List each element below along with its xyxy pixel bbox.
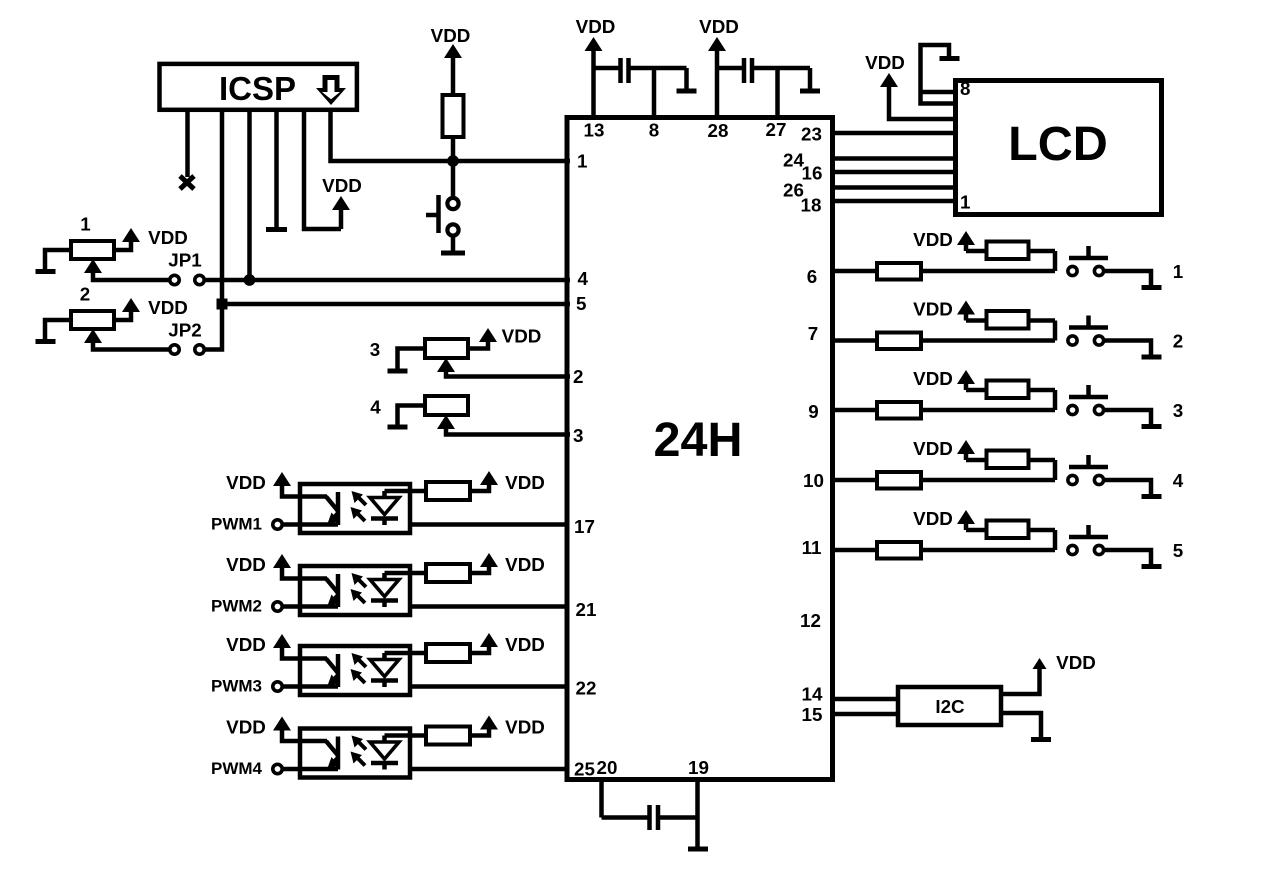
svg-text:VDD: VDD (502, 326, 542, 347)
svg-text:2: 2 (80, 284, 90, 305)
ICSP pin wire 6 / wire to MCU pin 1 (331, 110, 571, 161)
capacitor C3 (pins 20/19) (599, 779, 604, 818)
svg-text:22: 22 (576, 678, 597, 699)
svg-text:VDD: VDD (1056, 652, 1096, 673)
wire MCU pin 14 to I2C (833, 697, 898, 702)
ground (RV2) (36, 339, 56, 344)
svg-text:9: 9 (808, 401, 818, 422)
optocoupler U5 (PWM4, MCU pin 25) (226, 716, 568, 778)
switch row 5 (MCU pin 11) (832, 508, 1162, 567)
ground (RV3) (388, 369, 408, 374)
svg-text:PWM4: PWM4 (211, 759, 263, 778)
svg-text:3: 3 (1173, 400, 1183, 421)
svg-text:4: 4 (578, 268, 589, 289)
svg-text:I2C: I2C (935, 696, 965, 717)
optocoupler U3 (PWM2, MCU pin 21) (226, 553, 568, 615)
svg-text:16: 16 (802, 163, 823, 184)
svg-text:5: 5 (576, 293, 586, 314)
switch row 3 (MCU pin 9) (832, 368, 1162, 427)
wire MCU pin 18 to LCD (833, 199, 955, 204)
VDD arrow (RV2) (122, 298, 140, 312)
wire MCU pin 26 to LCD (833, 185, 955, 190)
ground (RV1) (36, 269, 56, 274)
VDD arrow (RV3) (479, 328, 497, 342)
svg-text:8: 8 (649, 120, 659, 141)
svg-text:11: 11 (802, 537, 822, 558)
resistor R1 (MCLR pull-up) (443, 95, 464, 137)
ground (RV4) (388, 425, 408, 430)
wire pin 19 to ground (695, 779, 700, 847)
ground (I2C) (1031, 737, 1051, 742)
VDD arrow (RV1) (122, 228, 140, 242)
svg-text:21: 21 (576, 599, 597, 620)
svg-text:25: 25 (574, 759, 595, 780)
svg-text:ICSP: ICSP (219, 70, 296, 107)
ground (LCD) (940, 56, 960, 61)
no-connect X (180, 176, 194, 189)
svg-text:1: 1 (960, 192, 970, 213)
wire I2C to VDD (1001, 669, 1040, 694)
wire LCD second stub (921, 90, 956, 95)
svg-text:24H: 24H (654, 413, 743, 467)
RV2 wiper arrow (84, 329, 102, 343)
svg-text:13: 13 (584, 120, 605, 141)
ICSP pin wire 4 (open terminal) (274, 110, 279, 229)
ICSP pin wire 5 (to VDD) (304, 110, 341, 229)
wire to MCU pin 5 (222, 302, 570, 307)
wire MCU pin 24 to LCD (833, 156, 955, 161)
switch row 2 (MCU pin 7) (832, 299, 1162, 358)
wire MCU pin 23 to LCD (833, 131, 955, 136)
svg-text:PWM2: PWM2 (211, 597, 262, 616)
svg-text:3: 3 (573, 425, 583, 446)
svg-text:1: 1 (80, 214, 90, 235)
I2C module box (898, 687, 1001, 725)
svg-text:PWM1: PWM1 (211, 515, 262, 534)
svg-text:4: 4 (1173, 470, 1184, 491)
ICSP pin wire 1 (185, 110, 190, 177)
ICSP pin wire 2 (to pin 5 net) (220, 110, 225, 304)
svg-text:2: 2 (573, 366, 583, 387)
svg-text:20: 20 (597, 757, 618, 778)
LCD box (956, 81, 1162, 215)
ICSP header J1 box (160, 64, 357, 110)
switch row 4 (MCU pin 10) (832, 438, 1162, 497)
svg-text:JP2: JP2 (168, 320, 201, 341)
svg-text:23: 23 (801, 124, 822, 145)
node junction pin5/ICSP (217, 299, 228, 310)
wire MCU pin 16 to LCD (833, 170, 955, 175)
svg-text:VDD: VDD (865, 52, 905, 73)
node junction pin4/ICSP (244, 274, 256, 286)
svg-text:17: 17 (574, 516, 595, 537)
svg-text:5: 5 (1173, 540, 1183, 561)
svg-text:VDD: VDD (431, 25, 471, 46)
MCU U1 box (567, 118, 833, 780)
svg-text:VDD: VDD (322, 175, 362, 196)
VDD arrow (R1) (444, 44, 462, 58)
wire LCD pin8 loop to ground (921, 45, 956, 104)
RV3 wiper arrow / wire to MCU pin 2 (437, 358, 455, 372)
optocoupler U4 (PWM3, MCU pin 22) (226, 633, 568, 695)
svg-text:LCD: LCD (1008, 117, 1108, 171)
svg-text:VDD: VDD (148, 227, 188, 248)
ground (C3) (688, 847, 708, 852)
pushbutton S1 (reset) (451, 161, 456, 197)
VDD arrow (I2C) (1033, 658, 1047, 669)
RV1 wiper arrow (84, 259, 102, 273)
svg-text:27: 27 (766, 119, 787, 140)
VDD arrow (LCD) (880, 73, 898, 87)
ICSP down-arrow icon (316, 75, 346, 105)
svg-text:7: 7 (808, 323, 818, 344)
svg-text:8: 8 (960, 78, 970, 99)
svg-text:VDD: VDD (148, 297, 188, 318)
optocoupler U2 (PWM1, MCU pin 17) (226, 471, 568, 533)
svg-text:PWM3: PWM3 (211, 677, 262, 696)
svg-text:19: 19 (688, 757, 709, 778)
wire JP1 to MCU pin 4 (205, 278, 571, 283)
VDD + capacitor C1 (pins 13/8) (576, 16, 697, 116)
svg-text:28: 28 (708, 120, 729, 141)
svg-text:1: 1 (1173, 261, 1183, 282)
wire MCU pin 15 to I2C (833, 712, 898, 717)
svg-text:10: 10 (803, 470, 824, 491)
wire JP2 riser (205, 304, 223, 350)
wire I2C to ground (1001, 713, 1041, 737)
svg-text:14: 14 (802, 684, 823, 705)
svg-text:JP1: JP1 (168, 250, 201, 271)
node MCLR junction (447, 155, 459, 167)
ICSP pin wire 3 (to pin 4 net) (247, 110, 252, 280)
svg-text:18: 18 (801, 195, 822, 216)
svg-text:2: 2 (1173, 331, 1183, 352)
svg-text:1: 1 (577, 151, 587, 172)
RV4 wiper arrow / wire to MCU pin 3 (437, 415, 455, 429)
VDD arrow (ICSP) (332, 196, 350, 210)
svg-text:15: 15 (802, 704, 823, 725)
svg-text:3: 3 (370, 339, 380, 360)
svg-text:12: 12 (800, 610, 821, 631)
svg-text:4: 4 (370, 397, 381, 418)
svg-text:6: 6 (807, 266, 817, 287)
switch row 1 (MCU pin 6) (832, 229, 1162, 288)
VDD + capacitor C2 (pins 28/27) (699, 16, 820, 116)
